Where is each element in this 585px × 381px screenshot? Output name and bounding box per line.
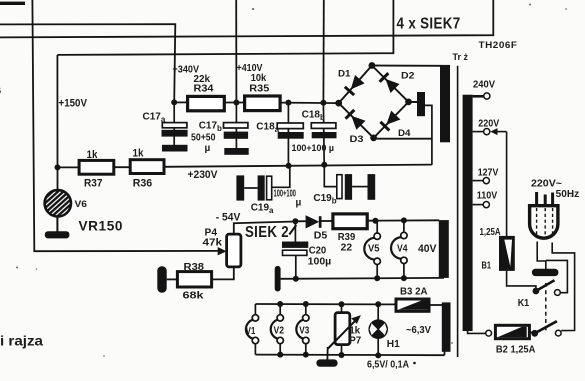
tick after SIEK 2 <box>289 225 296 235</box>
wire R35 to bridge <box>280 102 339 105</box>
svg-text:100µ: 100µ <box>308 256 332 267</box>
wire to R34 <box>174 101 187 103</box>
svg-text:R37: R37 <box>84 178 103 190</box>
node R35 left junction <box>233 100 239 106</box>
wire top line L2 <box>0 0 493 37</box>
svg-text:47k: 47k <box>203 238 223 249</box>
terminal circle left of B2 <box>486 330 492 336</box>
tube V6 VR150 <box>56 190 58 217</box>
wire heater bottom rail <box>255 354 444 357</box>
wire vertical feed to bridge node <box>322 0 324 103</box>
ground bar under V6 <box>56 217 58 232</box>
node H1 top junction <box>375 301 381 307</box>
svg-text:R36: R36 <box>133 177 153 189</box>
svg-text:- 54V: - 54V <box>216 212 241 224</box>
svg-text:240V: 240V <box>473 80 495 91</box>
svg-text:100+100 µ: 100+100 µ <box>292 143 335 153</box>
svg-text:V6: V6 <box>75 199 88 209</box>
capacitor C17b <box>235 103 237 150</box>
fuse B3 <box>396 299 429 311</box>
svg-text:P7: P7 <box>349 336 361 347</box>
node P7 bottom junction <box>339 352 345 358</box>
wire heater top rail <box>255 303 394 305</box>
svg-text:220V: 220V <box>478 119 499 130</box>
mains plug <box>530 206 558 238</box>
wire B1 bottom to K1 <box>507 271 536 290</box>
wire primary bottom to B2 <box>468 331 486 334</box>
svg-text:R34: R34 <box>194 84 214 95</box>
svg-text:+230V: +230V <box>188 169 219 181</box>
node C18b rail junction <box>321 162 327 168</box>
node C20 top junction <box>292 218 298 224</box>
diode D3 <box>351 116 365 130</box>
svg-text:B1: B1 <box>482 260 492 271</box>
svg-text:µ: µ <box>205 143 211 154</box>
scan speckles <box>252 8 254 10</box>
capacitor C20 <box>294 221 296 241</box>
potentiometer P4 <box>234 222 296 235</box>
node R39 right junction <box>372 218 378 224</box>
svg-text:R35: R35 <box>249 83 269 94</box>
svg-text:i rajza: i rajza <box>0 333 43 349</box>
svg-text:B3 2A: B3 2A <box>400 286 428 297</box>
terminal bar left of R38 <box>167 278 178 280</box>
wire bridge bottom to rail drop <box>374 138 432 140</box>
wire R37 rail <box>58 166 80 168</box>
node bridge top <box>369 62 376 69</box>
resistor R36 <box>130 160 164 174</box>
svg-text:K1: K1 <box>518 298 530 309</box>
svg-text:6,5V/ 0,1A: 6,5V/ 0,1A <box>367 359 409 370</box>
wire 220V arrow down to B1 <box>506 132 508 236</box>
svg-text:D2: D2 <box>401 71 415 81</box>
svg-text:SIEK 2: SIEK 2 <box>245 224 289 241</box>
wire to D5 <box>295 220 305 222</box>
node V3 bottom junction <box>303 352 309 358</box>
tube V5 heater <box>376 221 378 233</box>
svg-text:D5: D5 <box>314 230 328 241</box>
bridge rectifier frame <box>339 66 409 138</box>
capacitor C19a <box>236 175 244 200</box>
resistor R34 <box>188 96 225 110</box>
svg-text:1,25A: 1,25A <box>480 227 501 238</box>
wire R39 to 40V winding <box>367 219 439 221</box>
transformer core line <box>457 66 459 357</box>
node bridge right <box>405 99 412 106</box>
node V3 top junction <box>303 301 309 307</box>
terminal 220V with arrow <box>473 131 484 133</box>
wire top line L3 <box>57 0 393 55</box>
capacitor C18a <box>287 103 289 166</box>
node V4 top junction <box>401 217 407 223</box>
diode D2 <box>385 79 399 93</box>
tube V4 heater <box>403 220 405 232</box>
terminal 127V <box>473 180 484 182</box>
switch K1 lower pole <box>531 330 538 337</box>
wire D5 to R39 <box>322 220 333 222</box>
svg-text:100+100: 100+100 <box>274 189 297 200</box>
wire P4 bottom to R38 <box>212 267 234 280</box>
wire R37-R36 <box>114 166 130 168</box>
svg-text:1k: 1k <box>87 149 99 161</box>
svg-text:µ: µ <box>296 198 302 209</box>
node V2 top junction <box>277 301 283 307</box>
svg-text:D1: D1 <box>338 69 351 79</box>
wire +150V vertical <box>56 55 58 191</box>
wire bridge top to HV winding <box>372 65 441 67</box>
terminal 240V <box>473 95 484 98</box>
svg-text:68k: 68k <box>183 291 205 302</box>
wire bridge right to tap bar <box>409 101 418 103</box>
svg-text:Tr ż: Tr ż <box>453 52 469 62</box>
svg-text:50Hz: 50Hz <box>556 189 580 200</box>
node bridge bottom <box>370 135 377 142</box>
svg-text:40V: 40V <box>418 243 437 255</box>
wire +410V feed vertical <box>235 0 237 102</box>
transformer 40V winding bar <box>439 220 449 278</box>
potentiometer P7 <box>341 304 343 313</box>
wire R34-R35 <box>224 102 244 104</box>
svg-text:127V: 127V <box>478 167 499 178</box>
svg-text:V5: V5 <box>368 244 380 255</box>
resistor R35 <box>245 96 281 111</box>
node C20 bottom junction <box>293 276 299 282</box>
resistor R37 <box>79 160 114 174</box>
terminal bar ground C20 <box>275 266 281 292</box>
node C18a tap <box>285 100 291 106</box>
svg-text:V4: V4 <box>397 243 408 254</box>
switch K1 <box>533 288 540 295</box>
lamp H1 <box>377 304 379 320</box>
svg-text:C20: C20 <box>309 246 327 257</box>
wire cathode return rail <box>281 277 444 280</box>
wire K1 right contact up to junction bar <box>546 260 568 292</box>
transformer primary bar <box>463 95 473 331</box>
capacitor C17a <box>173 102 175 146</box>
dashed gang link <box>545 283 547 331</box>
wire rail to 6.3V winding bottom <box>444 350 446 355</box>
node P7 top junction <box>339 301 345 307</box>
svg-text:110V: 110V <box>477 190 498 201</box>
svg-text:4 x SIEK7: 4 x SIEK7 <box>397 15 461 32</box>
wire plug left pin to junction bar <box>537 242 546 270</box>
node H1 bottom junction <box>375 352 381 358</box>
node V4 bottom junction <box>401 275 407 281</box>
diode D5 <box>306 215 320 228</box>
transformer HV winding bar <box>440 65 450 142</box>
fuse B1 <box>500 237 513 269</box>
tube V3 heater <box>305 304 307 315</box>
terminal 110V <box>473 204 484 206</box>
capacitor C18b <box>322 103 325 165</box>
svg-text:1k: 1k <box>133 148 145 160</box>
top-left edge mark <box>0 2 25 5</box>
capacitor C19b <box>324 165 337 187</box>
node C18b tap <box>320 100 326 106</box>
transformer 6.3V winding bar <box>442 302 451 351</box>
ground bar P7 wiper <box>326 347 328 360</box>
wire top line L1 to +340V feed <box>0 24 175 102</box>
svg-text:H1: H1 <box>387 339 400 350</box>
wire left vertical to -54V rail <box>32 0 218 251</box>
wire B3 to 6.3V winding <box>430 304 443 306</box>
diode D4 <box>386 111 400 125</box>
resistor R38 <box>177 272 211 287</box>
svg-text:+150V: +150V <box>59 98 88 110</box>
svg-text:R38: R38 <box>184 262 205 273</box>
wire tap bar down to +230V rail <box>425 105 432 164</box>
svg-text:~6,3V: ~6,3V <box>406 325 431 336</box>
node bridge left <box>335 100 342 107</box>
diode D1 <box>351 75 365 89</box>
junction bar below plug <box>532 269 559 276</box>
node V5 bottom junction <box>374 275 380 281</box>
svg-text:V2: V2 <box>274 325 285 336</box>
tube V1 heater <box>254 304 256 315</box>
wire plug right pin to B2 switch <box>552 243 574 331</box>
node V2 bottom junction <box>277 352 283 358</box>
fuse B2 <box>495 325 529 338</box>
svg-text:TH206F: TH206F <box>479 40 518 50</box>
tube V2 heater <box>279 304 281 315</box>
resistor R39 <box>333 214 367 229</box>
node +150V junction <box>55 164 61 170</box>
svg-text:V3: V3 <box>299 325 309 336</box>
wire C19a to rail <box>272 166 290 188</box>
svg-text:22: 22 <box>341 242 353 253</box>
winding tap bar <box>417 92 425 116</box>
node +340V junction <box>171 99 177 105</box>
svg-text:50+50: 50+50 <box>191 133 216 144</box>
svg-text:VR150: VR150 <box>79 218 124 234</box>
node C18a rail junction <box>286 163 292 169</box>
wire +230V rail <box>164 165 432 167</box>
svg-text:D4: D4 <box>398 128 411 138</box>
svg-text:D3: D3 <box>350 134 364 144</box>
svg-text:B2 1,25A: B2 1,25A <box>496 344 536 355</box>
svg-text:V1: V1 <box>246 326 256 337</box>
